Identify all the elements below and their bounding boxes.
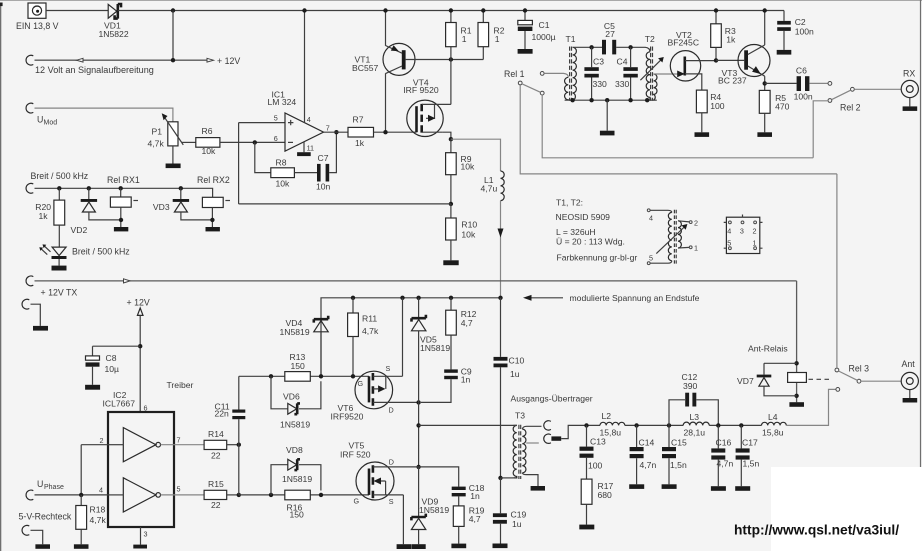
diode VD7	[737, 363, 797, 396]
arrow to +12V	[207, 56, 240, 66]
svg-text:22: 22	[211, 500, 221, 510]
svg-text:G: G	[354, 496, 360, 505]
node rail VT6 source	[400, 296, 404, 300]
wire drain node to VT3 base	[716, 59, 744, 61]
pinout footprint box	[724, 215, 763, 254]
ground VD9	[411, 544, 425, 549]
capacitor C18 1n	[452, 483, 485, 506]
border frame top	[0, 0, 922, 1]
node R16 left	[269, 493, 273, 497]
svg-text:L4: L4	[768, 412, 778, 422]
wire bias rail	[321, 298, 501, 377]
inductor L4 15,8u	[762, 412, 787, 437]
node C13	[584, 423, 588, 427]
connector 5-V-Rechteck	[19, 511, 72, 548]
svg-text:470: 470	[775, 102, 790, 112]
wire IC1 V+ pin4	[304, 11, 306, 123]
wire VT3 collector to rail	[764, 11, 766, 46]
connector UMod	[26, 103, 57, 126]
buffer A triangle	[108, 428, 161, 462]
node divider	[449, 202, 453, 206]
wire Rel1 lower contact to Rel2	[542, 95, 813, 158]
svg-text:C7: C7	[318, 153, 329, 163]
svg-text:4: 4	[307, 115, 311, 124]
node 12V line junction	[171, 58, 175, 62]
svg-text:4,7k: 4,7k	[90, 515, 107, 525]
svg-text:1: 1	[462, 34, 467, 44]
svg-text:2: 2	[694, 218, 698, 227]
svg-text:Rel 1: Rel 1	[504, 69, 525, 79]
svg-text:G: G	[358, 379, 364, 388]
relay switch Rel1	[504, 69, 544, 95]
node rail pin4	[302, 8, 306, 12]
pin 7	[161, 436, 205, 445]
wire vertical to 12V line	[172, 11, 174, 61]
resistor R8 10k	[271, 157, 295, 188]
node R13 right gate	[319, 374, 323, 378]
ground tank	[600, 131, 615, 136]
svg-text:1N5819: 1N5819	[420, 343, 450, 353]
svg-text:1N5819: 1N5819	[280, 327, 310, 337]
wire C5 to T2	[616, 47, 650, 52]
svg-text:6: 6	[144, 404, 148, 413]
svg-text:1N5819: 1N5819	[282, 474, 312, 484]
node T3 primary bottom	[498, 476, 502, 480]
svg-text:C4: C4	[617, 57, 628, 67]
ground VT5	[397, 544, 411, 549]
capacitor C1 1000u	[518, 11, 556, 54]
node C16	[716, 423, 720, 427]
ground RelRX2	[206, 227, 220, 231]
svg-text:7: 7	[326, 124, 330, 133]
relay switch Rel2	[828, 82, 861, 113]
svg-text:T2: T2	[645, 34, 655, 44]
svg-text:RX: RX	[903, 69, 915, 79]
diode VD4 1N5819	[280, 316, 329, 337]
relay coil Rel3 box	[788, 373, 807, 383]
IC2 ICL7667 box	[103, 390, 175, 527]
node R16 right gate	[319, 493, 323, 497]
capacitor C13 100	[580, 425, 606, 479]
arrow modulierte Spannung	[523, 293, 700, 303]
svg-text:100: 100	[588, 460, 603, 470]
jack shield bar	[551, 436, 561, 440]
svg-text:11: 11	[307, 143, 314, 152]
svg-text:Ausgangs-Übertrager: Ausgangs-Übertrager	[511, 394, 593, 404]
svg-text:1n: 1n	[470, 491, 480, 501]
svg-text:Ant: Ant	[902, 359, 916, 369]
pin 5	[161, 484, 205, 495]
resistor R13 150	[285, 352, 311, 381]
svg-text:R10: R10	[461, 219, 477, 229]
svg-text:C10: C10	[509, 356, 525, 366]
node gate line VT1	[383, 130, 387, 134]
wire R10 to ground	[450, 240, 452, 260]
potentiometer P1 4,7k	[148, 113, 184, 148]
capacitor C9 1n	[421, 366, 472, 402]
transistor VT4 IRF9520	[403, 77, 451, 136]
wire pin2 pin4 tie	[80, 445, 82, 495]
ground R5	[757, 132, 772, 137]
svg-text:U: U	[37, 479, 43, 489]
svg-text:ICL7667: ICL7667	[103, 399, 136, 409]
wire top rail left	[46, 10, 108, 12]
svg-text:5-V-Rechteck: 5-V-Rechteck	[19, 511, 72, 521]
wire Rel2 to RX	[854, 88, 901, 90]
dashed relay link	[809, 378, 832, 380]
wire tank bottom line	[565, 99, 657, 101]
svg-text:T1: T1	[566, 34, 576, 44]
svg-text:1: 1	[495, 34, 500, 44]
relay coil RelRX1	[107, 175, 140, 227]
svg-text:1k: 1k	[726, 35, 736, 45]
svg-text:1,5n: 1,5n	[743, 459, 760, 469]
svg-text:T1, T2:: T1, T2:	[556, 198, 583, 208]
svg-text:Rel RX1: Rel RX1	[107, 175, 140, 185]
svg-text:C15: C15	[671, 438, 687, 448]
svg-text:5: 5	[177, 484, 181, 493]
inductor L1 4,7u	[481, 171, 505, 201]
node bottom ground stub	[605, 98, 609, 102]
svg-text:28,1u: 28,1u	[684, 427, 706, 437]
svg-text:4,7n: 4,7n	[640, 460, 657, 470]
wire R13 row	[239, 375, 369, 377]
svg-text:22: 22	[211, 450, 221, 460]
inductor L3 28,1u	[683, 412, 709, 437]
LED Breit/500kHz	[39, 244, 129, 259]
svg-text:Mod: Mod	[44, 119, 58, 126]
wire drain to L1	[451, 139, 501, 171]
svg-text:12 Volt an Signalaufbereitung: 12 Volt an Signalaufbereitung	[35, 65, 154, 75]
svg-text:C13: C13	[590, 436, 606, 446]
resistor R12 4,7	[446, 298, 477, 370]
connector RX	[901, 69, 918, 111]
wire Rel2 lower contact to bypass riser	[813, 101, 828, 158]
ground R18	[74, 544, 89, 549]
node Breit R20	[57, 186, 61, 190]
resistor R17 680	[581, 479, 613, 524]
svg-text:P1: P1	[152, 126, 163, 136]
wire R8 to C7	[294, 172, 317, 174]
wire VT1 base row	[406, 59, 484, 61]
node R11 gate	[351, 374, 355, 378]
jack arc lower	[544, 434, 551, 443]
ground IC1 pin11	[297, 152, 311, 156]
svg-text:1000µ: 1000µ	[532, 32, 556, 42]
resistor R6 10k	[196, 126, 220, 156]
svg-text:1N5822: 1N5822	[99, 29, 129, 39]
node rail R2	[481, 8, 485, 12]
wire driver tie vertical	[238, 419, 240, 495]
svg-text:D: D	[389, 457, 394, 466]
svg-text:3: 3	[144, 530, 148, 539]
svg-text:S: S	[386, 364, 391, 373]
wire pin11 stem	[303, 142, 305, 152]
wire divider row	[239, 203, 451, 205]
svg-text:+ 12V: + 12V	[127, 298, 150, 308]
transistor VT2 BF245C	[668, 30, 717, 90]
ground R17	[579, 525, 594, 530]
wire T2 sec to VT2 gate	[654, 73, 682, 75]
node bottom T2	[645, 98, 649, 102]
svg-text:L2: L2	[602, 411, 612, 421]
capacitor C2 100n	[777, 11, 814, 50]
node base R1	[449, 57, 453, 61]
svg-text:LM 324: LM 324	[268, 97, 297, 107]
svg-text:10k: 10k	[461, 162, 476, 172]
svg-text:1k: 1k	[39, 211, 49, 221]
svg-text:Rel 2: Rel 2	[840, 102, 861, 112]
svg-text:C17: C17	[742, 437, 758, 447]
relay switch Rel3	[835, 364, 869, 392]
wire L1 down with arrow	[498, 201, 504, 298]
svg-text:1: 1	[694, 244, 698, 253]
wire Rel3 to Ant	[861, 380, 901, 382]
svg-text:+ 12V: + 12V	[217, 56, 240, 66]
svg-text:1u: 1u	[512, 519, 522, 529]
node rail R3	[714, 8, 718, 12]
svg-text:BC 237: BC 237	[718, 75, 747, 85]
svg-text:Ant-Relais: Ant-Relais	[748, 343, 788, 353]
wire VD2 to ground node	[89, 212, 121, 220]
resistor R16 150	[285, 490, 311, 519]
connector Ant	[901, 359, 918, 403]
wire R20 to LED	[58, 225, 60, 247]
svg-text:1k: 1k	[355, 138, 365, 148]
capacitor C8 10u	[86, 353, 120, 385]
svg-text:BF245C: BF245C	[668, 37, 700, 47]
svg-text:VD6: VD6	[283, 392, 300, 402]
wire Rel3 riser top	[836, 174, 838, 368]
connector UPhase	[26, 479, 81, 500]
node T3 top feed	[416, 423, 420, 427]
transformer T1	[565, 34, 577, 101]
node rail VT1	[383, 8, 387, 12]
svg-text:390: 390	[683, 381, 698, 391]
svg-text:10k: 10k	[202, 146, 217, 156]
svg-text:1N5819: 1N5819	[419, 505, 449, 515]
svg-text:R8: R8	[276, 157, 287, 167]
svg-text:R7: R7	[353, 115, 364, 125]
node VT4 drain	[449, 137, 453, 141]
svg-text:1n: 1n	[461, 374, 471, 384]
wire VT4 source to base node	[450, 60, 452, 105]
node C14	[634, 423, 638, 427]
ground C14	[629, 484, 644, 489]
svg-text:C8: C8	[106, 353, 117, 363]
svg-text:Treiber: Treiber	[167, 380, 194, 390]
svg-text:VD3: VD3	[153, 202, 170, 212]
svg-text:100n: 100n	[794, 92, 813, 102]
wire R7 to VT4 gate	[374, 131, 417, 133]
svg-text:Rel RX2: Rel RX2	[197, 175, 230, 185]
node bottom T1 sec	[570, 98, 574, 102]
svg-text:NEOSID 5909: NEOSID 5909	[556, 212, 611, 222]
diode VD5 1N5819	[412, 298, 451, 403]
svg-text:5: 5	[274, 113, 278, 122]
node C15 L3	[667, 423, 671, 427]
wire VT3 emitter node	[764, 76, 766, 90]
ground C17	[735, 486, 750, 491]
resistor R11 4,7k	[348, 298, 379, 377]
op-amp IC1 LM324	[268, 90, 330, 153]
node R15 out	[237, 493, 241, 497]
capacitor C15 1,5n	[662, 425, 687, 484]
node rail R12	[449, 296, 453, 300]
capacitor C5 27	[602, 21, 616, 55]
wire T3 secondary bottom to ground	[522, 473, 538, 486]
node RelRX2 bottom	[210, 218, 214, 222]
resistor R7 1k	[348, 115, 374, 149]
svg-text:4: 4	[649, 213, 653, 222]
node Breit RelRX1	[119, 186, 123, 190]
svg-text:5: 5	[727, 238, 731, 247]
resistor R18 4,7k	[76, 495, 107, 544]
wire Rel1 common down to Rel3 riser	[520, 85, 837, 174]
connector Breit/500kHz	[26, 171, 88, 193]
wire VT1 emitter to rail	[385, 11, 387, 46]
node rail R1	[449, 8, 453, 12]
resistor R3 1k	[711, 11, 736, 61]
wire UMod to P1	[35, 108, 173, 122]
wire LED to ground	[58, 259, 60, 266]
capacitor C4 330	[615, 47, 638, 100]
svg-text:S: S	[389, 497, 394, 506]
wire T3 bottom tap	[501, 477, 514, 479]
wire ground stub tank	[606, 100, 608, 131]
svg-text:C6: C6	[796, 65, 807, 75]
resistor R4 100	[696, 90, 724, 132]
resistor R9 10k	[446, 153, 475, 175]
svg-text:L = 326uH: L = 326uH	[556, 227, 596, 237]
svg-text:1N5819: 1N5819	[280, 419, 310, 429]
svg-text:L3: L3	[690, 412, 700, 422]
node R13 left	[269, 374, 273, 378]
wire P1 wiper to R6	[182, 141, 196, 143]
node rail-VD1	[171, 8, 175, 12]
pin 4	[81, 486, 108, 495]
svg-text:VD8: VD8	[286, 445, 303, 455]
capacitor C16 4,7n	[711, 425, 733, 486]
winding detail transformer	[647, 209, 698, 265]
svg-text:3: 3	[740, 226, 744, 235]
wire +input vertical	[238, 123, 240, 204]
svg-text:150: 150	[291, 361, 306, 371]
node Breit VD2	[87, 186, 91, 190]
connector 12 Volt an Signalaufbereitung	[26, 55, 207, 75]
svg-text:Ü = 20 : 113 Wdg.: Ü = 20 : 113 Wdg.	[556, 237, 625, 247]
connector J1 EIN 13,8V	[16, 3, 59, 31]
transformer T3	[513, 410, 539, 479]
wire Breit row	[35, 188, 213, 197]
capacitor C17 1,5n	[736, 425, 760, 486]
svg-text:150: 150	[290, 510, 305, 520]
resistor R20 1k	[35, 188, 64, 225]
ground P1	[166, 164, 181, 169]
capacitor C6 100n	[794, 65, 813, 101]
node R14 out	[237, 443, 241, 447]
ground T3 secondary	[531, 486, 545, 491]
wire VT6 source to rail	[402, 298, 404, 377]
ground LED	[52, 266, 67, 271]
arrow +12V up	[137, 308, 143, 412]
svg-text:27: 27	[605, 29, 615, 39]
wire VT4 drain to R9	[450, 139, 452, 153]
wire VD4 to gate node	[320, 332, 322, 377]
ground RelRX1	[114, 227, 128, 231]
svg-text:C3: C3	[593, 57, 604, 67]
svg-text:2: 2	[753, 226, 757, 235]
svg-text:1,5n: 1,5n	[670, 460, 687, 470]
node rail C1	[523, 8, 527, 12]
svg-text:+ 12V TX: + 12V TX	[41, 288, 78, 298]
svg-text:6: 6	[274, 134, 278, 143]
wire feedback down from -input	[255, 142, 271, 172]
svg-text:1: 1	[753, 238, 757, 247]
svg-text:T3: T3	[515, 410, 525, 420]
arrow on +12VTX rail	[124, 279, 131, 283]
connector +12V TX	[26, 276, 77, 298]
ground Ant-Relais	[789, 402, 804, 407]
node inverting input	[253, 140, 257, 144]
ground R10	[443, 260, 458, 265]
svg-text:22n: 22n	[215, 409, 230, 419]
resistor R15 22	[204, 479, 239, 510]
capacitor C14 4,7n	[630, 425, 657, 484]
svg-text:10k: 10k	[461, 229, 476, 239]
node bottom C4	[628, 98, 632, 102]
node Breit VD3	[179, 186, 183, 190]
svg-text:Farbkennung gr-bl-gr: Farbkennung gr-bl-gr	[557, 252, 638, 262]
wire L3 to L4	[709, 424, 761, 426]
svg-text:330: 330	[593, 79, 608, 89]
wire R9 to node	[450, 175, 452, 204]
pin 3 ground	[133, 527, 147, 549]
svg-text:2: 2	[100, 436, 104, 445]
buffer B triangle	[108, 478, 161, 512]
wire +12VTX to relay	[796, 281, 798, 402]
wire T3 primary top	[419, 424, 517, 426]
node rail L1 feed	[498, 296, 502, 300]
capacitor C12 390 loop	[669, 372, 718, 425]
svg-text:U: U	[37, 114, 43, 124]
node top line C3	[589, 45, 593, 49]
wire R16 row	[239, 494, 369, 496]
svg-text:C14: C14	[639, 438, 655, 448]
ground C2	[777, 50, 792, 55]
svg-text:EIN 13,8 V: EIN 13,8 V	[16, 21, 59, 31]
wire VT6 drain node down	[418, 402, 420, 467]
svg-text:15,8u: 15,8u	[762, 427, 784, 437]
capacitor C10 1u	[494, 356, 525, 379]
resistor R5 470	[759, 90, 789, 132]
svg-text:Breit / 500 kHz: Breit / 500 kHz	[72, 246, 130, 256]
ground C19	[493, 544, 508, 549]
node top line C4	[628, 45, 632, 49]
svg-text:10µ: 10µ	[105, 364, 120, 374]
node output	[334, 130, 338, 134]
ground C15	[662, 484, 677, 489]
wire modulated feed through C10	[500, 298, 502, 478]
node C8 branch	[138, 344, 142, 348]
wire T3 secondary top to jack	[522, 426, 541, 429]
svg-text:5: 5	[649, 253, 653, 262]
wire output to R7	[324, 131, 349, 133]
svg-text:4,7k: 4,7k	[148, 138, 165, 148]
wire noninverting input	[239, 122, 285, 124]
jack arc upper	[544, 421, 551, 430]
svg-text:4,7: 4,7	[461, 318, 473, 328]
